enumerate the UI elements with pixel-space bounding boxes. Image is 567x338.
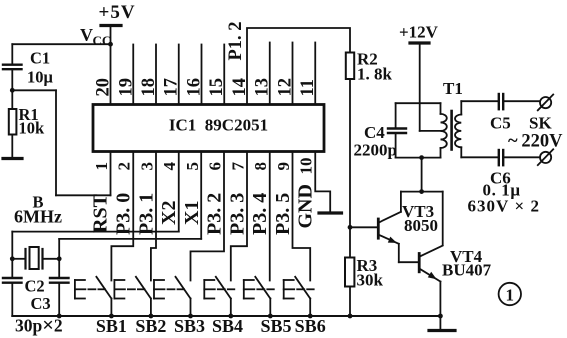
svg-text:SK: SK xyxy=(529,114,552,133)
svg-text:10: 10 xyxy=(297,158,316,175)
svg-text:11: 11 xyxy=(298,79,318,96)
svg-text:P3. 2: P3. 2 xyxy=(204,193,226,235)
svg-text:P3. 5: P3. 5 xyxy=(272,193,294,235)
svg-text:P3. 0: P3. 0 xyxy=(113,193,135,235)
svg-text:C2: C2 xyxy=(25,277,45,296)
svg-text:10μ: 10μ xyxy=(27,68,54,87)
svg-text:15: 15 xyxy=(207,78,227,97)
svg-text:4: 4 xyxy=(160,162,179,171)
svg-text:SB4: SB4 xyxy=(212,316,243,336)
svg-text:SB2: SB2 xyxy=(135,316,166,336)
svg-text:2: 2 xyxy=(115,162,134,171)
svg-text:30k: 30k xyxy=(357,271,384,290)
svg-text:19: 19 xyxy=(117,78,137,97)
svg-text:X1: X1 xyxy=(181,201,203,225)
svg-text:1: 1 xyxy=(92,162,111,171)
svg-text:C5: C5 xyxy=(490,114,511,133)
svg-text:5: 5 xyxy=(183,162,202,171)
svg-text:6: 6 xyxy=(206,162,225,171)
svg-text:1: 1 xyxy=(506,286,515,305)
svg-text:18: 18 xyxy=(139,78,159,97)
svg-text:1. 8k: 1. 8k xyxy=(357,65,393,84)
svg-text:SB6: SB6 xyxy=(295,316,326,336)
svg-text:20: 20 xyxy=(94,78,114,97)
svg-text:P3. 3: P3. 3 xyxy=(227,193,249,235)
svg-text:BU407: BU407 xyxy=(442,261,492,280)
svg-text:SB5: SB5 xyxy=(260,316,291,336)
svg-text:IC1 89C2051: IC1 89C2051 xyxy=(169,116,268,135)
svg-text:+5V: +5V xyxy=(99,2,136,23)
svg-text:X2: X2 xyxy=(158,201,180,225)
svg-text:8050: 8050 xyxy=(404,216,438,235)
svg-text:RST: RST xyxy=(90,193,112,233)
svg-text:3: 3 xyxy=(138,162,157,171)
svg-text:C3: C3 xyxy=(31,294,51,313)
svg-text:16: 16 xyxy=(185,78,205,97)
svg-text:P3. 1: P3. 1 xyxy=(136,193,158,235)
svg-text:8: 8 xyxy=(251,162,270,171)
svg-text:SB1: SB1 xyxy=(96,316,127,336)
svg-text:P3. 4: P3. 4 xyxy=(249,193,271,235)
svg-text:7: 7 xyxy=(229,162,248,171)
svg-text:17: 17 xyxy=(162,78,182,97)
svg-text:13: 13 xyxy=(253,78,273,97)
svg-text:630V × 2: 630V × 2 xyxy=(468,197,540,216)
svg-text:9: 9 xyxy=(274,162,293,171)
svg-text:V: V xyxy=(80,25,93,45)
svg-text:10k: 10k xyxy=(19,119,46,138)
svg-text:C1: C1 xyxy=(30,49,50,68)
svg-text:14: 14 xyxy=(230,78,250,97)
svg-text:12: 12 xyxy=(276,78,296,97)
svg-text:30p×2: 30p×2 xyxy=(15,315,63,337)
svg-text:C4: C4 xyxy=(364,123,385,142)
svg-text:GND: GND xyxy=(295,184,317,228)
svg-text:+12V: +12V xyxy=(399,23,439,42)
svg-text:T1: T1 xyxy=(443,79,463,98)
svg-text:P1. 2: P1. 2 xyxy=(226,21,246,60)
svg-text:6MHz: 6MHz xyxy=(14,207,62,227)
svg-text:~ 220V: ~ 220V xyxy=(508,132,563,152)
svg-text:2200p: 2200p xyxy=(354,141,397,160)
svg-text:SB3: SB3 xyxy=(174,316,205,336)
svg-text:CC: CC xyxy=(93,33,112,48)
